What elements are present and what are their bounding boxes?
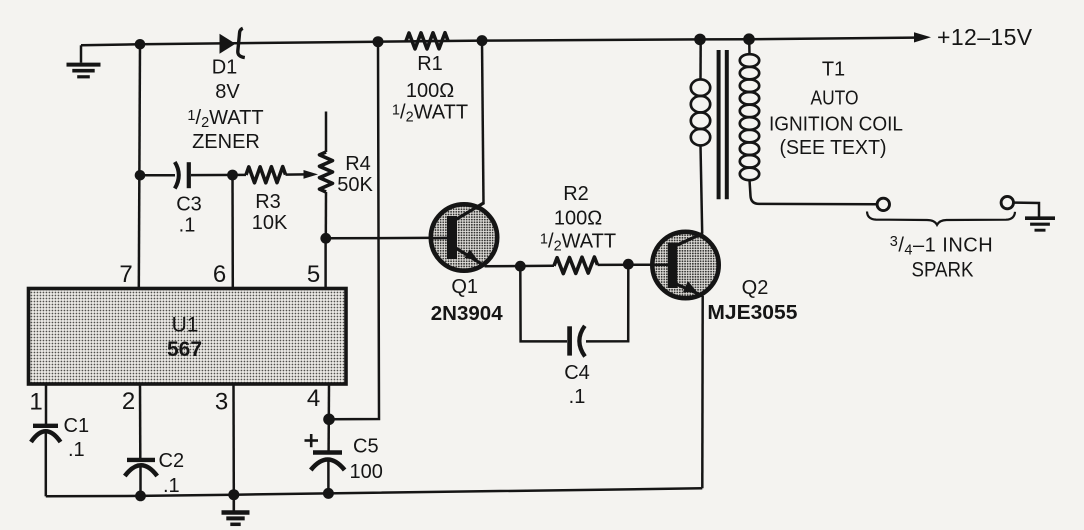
wire C2 to rail	[139, 467, 142, 496]
spark gap right terminal	[1001, 196, 1013, 208]
capacitor C1	[33, 424, 58, 428]
svg-text:MJE3055: MJE3055	[707, 301, 797, 324]
svg-text:C4: C4	[564, 362, 590, 384]
svg-text:.1: .1	[68, 439, 85, 461]
wire C3 left lead	[139, 174, 175, 177]
wire T1 secondary bottom to spark gap	[750, 180, 878, 204]
svg-text:U1: U1	[172, 314, 199, 337]
svg-text:.1: .1	[163, 475, 180, 497]
node junction pin4	[323, 414, 335, 426]
svg-text:R3: R3	[255, 191, 281, 213]
wire Q1 emitter to R2	[485, 265, 555, 268]
zener diode D1	[220, 34, 236, 54]
node junction R4/pin5/Q1 base	[320, 233, 331, 244]
svg-text:R2: R2	[563, 183, 589, 205]
svg-text:100Ω: 100Ω	[406, 80, 454, 102]
wire pin 5	[324, 238, 327, 288]
wire pin 7 column	[139, 44, 140, 288]
svg-text:7: 7	[119, 261, 132, 288]
node junction pin3/rail	[228, 489, 239, 500]
svg-text:1/2WATT: 1/2WATT	[187, 107, 263, 131]
node junction C2/rail	[135, 491, 146, 502]
wire T1 primary to Q2 collector	[701, 145, 703, 233]
resistor R3	[246, 167, 286, 183]
svg-text:100: 100	[350, 461, 383, 483]
wire top supply rail	[81, 38, 915, 46]
svg-text:567: 567	[167, 338, 202, 361]
wire C4 left leg	[520, 266, 567, 341]
svg-text:ZENER: ZENER	[192, 131, 260, 153]
plus sign of C5	[305, 439, 319, 442]
node junction top rail at pin4 riser	[373, 36, 384, 47]
transformer T1 primary winding	[691, 79, 710, 96]
svg-text:C5: C5	[353, 436, 379, 458]
svg-text:100Ω: 100Ω	[554, 208, 602, 230]
arrow to +12-15V supply	[914, 32, 931, 42]
node junction Q1 emitter / C4 left	[515, 261, 526, 272]
svg-text:50K: 50K	[337, 174, 373, 196]
svg-text:R1: R1	[417, 53, 443, 75]
svg-text:IGNITION COIL: IGNITION COIL	[769, 114, 903, 136]
node junction top rail at pin7 column	[135, 39, 146, 50]
transformer T1 core	[717, 50, 721, 199]
svg-text:1: 1	[29, 389, 42, 416]
svg-text:8V: 8V	[215, 81, 240, 103]
svg-text:2: 2	[122, 388, 135, 415]
wire pin 4	[327, 384, 330, 451]
svg-text:(SEE TEXT): (SEE TEXT)	[780, 137, 887, 159]
svg-text:6: 6	[213, 261, 226, 288]
wire C3 to R3	[191, 174, 246, 177]
node junction C3/R3/pin6	[227, 170, 238, 181]
wire pin4 junction to top rail riser	[329, 42, 379, 420]
transistor Q2	[652, 232, 718, 298]
capacitor C4	[567, 326, 572, 355]
transistor Q1	[431, 204, 497, 270]
ground (spark gap right)	[1025, 216, 1055, 220]
wire R4 junction to Q1 base	[326, 237, 448, 240]
wire T1 secondary top lead	[748, 39, 751, 54]
ground (bottom, pin 3)	[233, 495, 236, 511]
wire bottom rail	[46, 488, 703, 496]
node junction C3 left	[135, 170, 146, 181]
node junction top rail right of R1	[477, 35, 488, 46]
svg-text:.1: .1	[569, 386, 586, 408]
svg-text:C3: C3	[176, 194, 202, 216]
node junction top rail at T1 secondary	[743, 33, 755, 45]
resistor R1	[406, 33, 448, 49]
wire pin 6	[231, 175, 234, 289]
wire Q2 emitter to bottom rail	[701, 296, 704, 489]
wire C5 to rail	[327, 461, 330, 493]
svg-text:AUTO: AUTO	[811, 88, 859, 110]
svg-text:2N3904: 2N3904	[431, 302, 503, 325]
wire C1 to rail	[45, 433, 48, 496]
wire right terminal to ground	[1014, 203, 1040, 217]
svg-text:1/2WATT: 1/2WATT	[540, 231, 616, 255]
ground (top left)	[80, 45, 83, 62]
wire C4 right leg	[586, 264, 628, 341]
svg-text:+12–15V: +12–15V	[937, 24, 1033, 50]
svg-text:C2: C2	[159, 450, 185, 472]
svg-text:SPARK: SPARK	[912, 259, 974, 282]
svg-text:.1: .1	[179, 215, 196, 237]
wire R1 to Q1 collector	[482, 41, 484, 204]
svg-text:D1: D1	[212, 57, 238, 79]
resistor R2	[554, 257, 598, 274]
wire pin 1	[45, 384, 48, 424]
transformer T1 secondary winding	[740, 54, 759, 67]
svg-text:C1: C1	[64, 415, 90, 437]
wire R2 to Q2 base	[598, 263, 669, 266]
svg-text:5: 5	[307, 261, 320, 288]
svg-text:3: 3	[215, 389, 228, 416]
brace under spark gap	[867, 212, 1015, 225]
wire pin 3	[232, 384, 235, 495]
node junction R2 right / C4 right	[623, 259, 634, 270]
svg-text:10K: 10K	[252, 212, 288, 234]
IC U1 567 box	[29, 289, 347, 385]
capacitor C3	[175, 162, 179, 189]
node junction C5/rail	[323, 488, 334, 499]
node junction top rail at T1 primary	[694, 34, 706, 46]
capacitor C5 (electrolytic)	[313, 450, 342, 455]
potentiometer R4	[325, 112, 328, 153]
svg-text:1/2WATT: 1/2WATT	[392, 102, 468, 126]
svg-text:T1: T1	[822, 59, 845, 81]
svg-text:Q2: Q2	[742, 277, 769, 299]
svg-text:4: 4	[307, 385, 320, 412]
svg-text:R4: R4	[345, 153, 371, 175]
wire R3 wiper arrow to R4	[286, 173, 306, 176]
wire T1 primary top lead	[699, 39, 702, 79]
capacitor C2	[127, 458, 155, 462]
wire pin 2	[139, 384, 142, 458]
svg-text:Q1: Q1	[451, 276, 478, 298]
spark gap left terminal	[877, 198, 889, 210]
